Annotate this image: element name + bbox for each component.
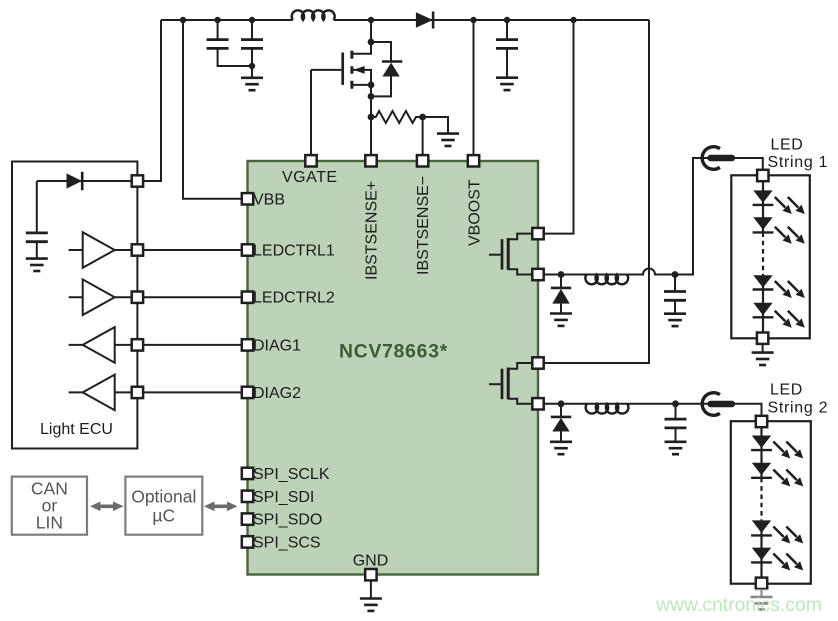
svg-text:DIAG1: DIAG1 [253,337,301,354]
pin GND [365,569,376,580]
svg-text:IBSTSENSE−: IBSTSENSE− [415,176,432,275]
ground C5 [664,314,686,326]
arrows D11 [773,470,803,487]
diode D4 freewheel buck1 [560,275,562,314]
ECU pin 2 [132,244,143,255]
svg-text:LED: LED [770,382,803,399]
ECU pin top [132,175,143,186]
pin VBOOST [468,155,479,166]
svg-text:DIAG2: DIAG2 [253,385,301,402]
wire DIAG1 row [115,344,243,346]
pin string2 bottom [756,578,767,589]
LED D8 [753,275,772,288]
pin string2 top [756,416,767,427]
svg-text:SPI_SCS: SPI_SCS [253,534,321,551]
svg-text:String 2: String 2 [768,400,829,417]
wire top rail [161,19,649,21]
buffer A4 [69,375,115,411]
wire boost switch node [352,20,371,54]
LED D9 [753,303,772,316]
svg-text:µC: µC [152,506,175,526]
capacitor C5 buck1 out [674,275,676,314]
LED D13 [752,548,771,561]
arrow uC-IC [204,502,238,512]
node rail-vbb [180,17,186,23]
buffer A1 [69,232,115,268]
pin buck2 source [532,398,543,409]
arrows D6 [775,197,805,214]
svg-text:VBOOST: VBOOST [467,179,484,246]
capacitor C4 ECU [36,181,38,259]
capacitor C2 [251,20,253,78]
wire gate to VGATE pin [310,70,312,156]
arrows D8 [775,281,805,298]
arrows D7 [775,227,805,244]
pin VGATE [305,155,316,166]
pin SPI_SDO [242,513,253,524]
svg-text:String 1: String 1 [768,154,829,171]
wire string2 chain [760,422,762,584]
pin string1 bottom [757,333,768,344]
wire ECU diode row [37,180,138,182]
wire VBB drop [183,20,243,199]
ground GND pin [370,580,372,598]
diode D3 ECU [67,173,83,188]
svg-text:www.cntronics.com: www.cntronics.com [655,594,822,616]
transistor Q2 buck1 NMOS [489,234,533,275]
inductor L1 boost [292,10,335,20]
LED D7 [753,217,772,230]
buffer A3 [69,327,115,363]
ground D4 [550,314,572,326]
transistor Q1 boost NMOS [311,51,371,89]
ground C4 [26,259,48,271]
pin buck1 source [532,269,543,280]
wire DIAG2 row [115,391,243,393]
LED D10 [752,436,771,449]
transistor Q3 buck2 NMOS [489,363,533,404]
ground string1 [762,344,764,353]
svg-text:LEDCTRL2: LEDCTRL2 [253,290,335,307]
capacitor C3 boost out [506,20,508,78]
ground R1 [437,134,459,146]
pin SPI_SCLK [242,468,253,479]
arrows D9 [775,311,805,328]
pin IBSTSENSE+ [365,155,376,166]
wire IBSTSENSE- drop [422,117,424,156]
svg-text:IBSTSENSE+: IBSTSENSE+ [364,181,381,280]
pin LEDCTRL2 [242,292,253,303]
arrows D12 [773,527,803,544]
ground C6 [665,442,687,454]
ECU pin 5 [132,387,143,398]
diode D2 boost clamp [371,42,391,96]
svg-text:VGATE: VGATE [282,169,338,186]
wire VBOOST drop [473,20,475,156]
wire left drop to Light ECU [138,20,161,181]
svg-text:GND: GND [353,553,389,570]
capacitor C1 [218,20,252,66]
svg-text:SPI_SDO: SPI_SDO [253,512,322,529]
svg-text:SPI_SCLK: SPI_SCLK [253,466,330,483]
ground C1C2 [241,78,263,90]
inductor L2 buck1 [585,275,628,285]
arrows D13 [773,554,803,571]
diode D1 rail [416,12,433,27]
LED D6 [753,190,772,203]
diode D5 freewheel buck2 [560,404,562,442]
resistor R1 sense [371,111,448,134]
svg-text:NCV78663*: NCV78663* [339,342,448,363]
svg-text:LIN: LIN [36,513,63,533]
buffer A2 [69,279,115,315]
svg-text:Light ECU: Light ECU [40,421,113,438]
pin VBB [242,193,253,204]
pin SPI_SCS [242,536,253,547]
pin SPI_SDI [242,491,253,502]
pin buck2 drain [532,357,543,368]
ECU pin 4 [132,339,143,350]
wire LEDCTRL1 row [115,249,243,251]
capacitor C6 buck2 out [675,404,677,442]
probe current sense string1 [702,147,732,170]
svg-text:VBB: VBB [253,191,285,208]
Optional uC box [125,477,202,535]
LED String 1 box [731,175,810,338]
pin IBSTSENSE- [417,155,428,166]
pin buck1 drain [532,228,543,239]
svg-text:Optional: Optional [131,487,196,507]
Light ECU box [12,162,137,449]
probe current sense string2 [702,393,732,416]
LED String 2 box [731,421,811,584]
arrows D10 [773,442,803,459]
IC U1 NCV78663 body [248,161,539,575]
pin DIAG2 [242,387,253,398]
svg-text:SPI_SDI: SPI_SDI [253,489,314,506]
ground string2 [761,589,763,597]
ground C3 [496,78,518,90]
wire sense node [370,85,372,156]
ECU pin 3 [132,292,143,303]
ground D5 [550,442,572,454]
wire string1 chain [762,176,764,339]
watermark overlay patch [732,589,792,621]
wire buck2 drain drop [544,20,650,363]
LED D11 [752,463,771,476]
wire buck1 output [544,158,763,275]
wire buck2 output [544,404,762,416]
wire LEDCTRL2 row [115,296,243,298]
wire buck1 drain drop [544,20,574,234]
CAN or LIN box [12,477,87,535]
pin DIAG1 [242,339,253,350]
pin string1 top [757,170,768,181]
svg-text:LED: LED [771,137,804,154]
inductor L3 buck2 [586,404,629,414]
LED D12 [752,520,771,533]
arrow CAN-uC [90,502,124,512]
pin LEDCTRL1 [242,244,253,255]
svg-text:LEDCTRL1: LEDCTRL1 [253,243,335,260]
